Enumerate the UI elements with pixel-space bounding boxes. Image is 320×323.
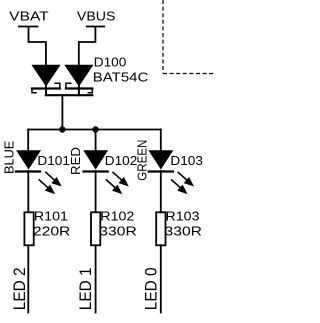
svg-text:LED 2: LED 2 bbox=[11, 267, 29, 310]
svg-text:R102: R102 bbox=[100, 209, 134, 224]
svg-text:330R: 330R bbox=[99, 224, 137, 239]
svg-text:LED 1: LED 1 bbox=[77, 267, 95, 310]
svg-text:D101: D101 bbox=[37, 153, 70, 168]
svg-text:R103: R103 bbox=[166, 209, 200, 224]
svg-text:VBAT: VBAT bbox=[9, 8, 49, 23]
svg-text:D103: D103 bbox=[170, 153, 203, 168]
svg-text:D102: D102 bbox=[105, 153, 138, 168]
svg-text:VBUS: VBUS bbox=[77, 8, 116, 23]
svg-text:220R: 220R bbox=[33, 224, 71, 239]
svg-text:330R: 330R bbox=[165, 224, 203, 239]
svg-text:BLUE: BLUE bbox=[2, 140, 17, 174]
svg-text:R101: R101 bbox=[34, 209, 68, 224]
svg-text:GREEN: GREEN bbox=[135, 140, 150, 181]
svg-text:RED: RED bbox=[68, 147, 83, 175]
svg-text:BAT54C: BAT54C bbox=[93, 70, 149, 85]
svg-text:LED 0: LED 0 bbox=[143, 267, 161, 310]
svg-text:D100: D100 bbox=[94, 54, 127, 69]
